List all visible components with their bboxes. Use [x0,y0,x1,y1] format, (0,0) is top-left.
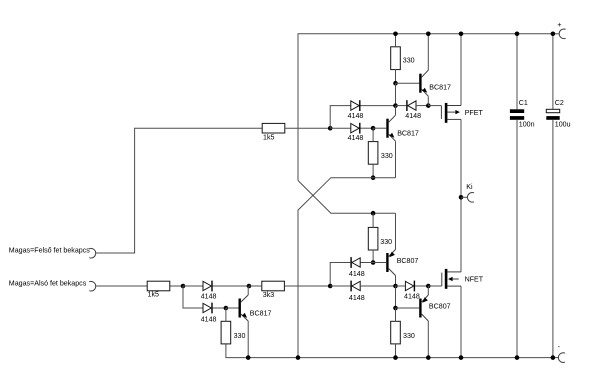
resistor R8 330 (bottom middle) [391,321,401,344]
wire D4 to left vertical [330,263,350,287]
node R2 top junction [393,32,398,37]
wire row 213 to Q3 emitter [395,213,397,249]
wire Also input to R 1k5 [96,285,148,287]
node O junction [393,306,398,311]
wire bottom rail stub to minus connector [554,357,559,359]
resistor R2 330 (top) [391,47,401,70]
wire row B to diode D3 [330,127,351,129]
transistor Q5 BC807 (bottom PNP) [419,299,421,318]
node G junction [371,211,376,216]
svg-text:4148: 4148 [201,316,217,324]
node D junction [371,126,376,131]
svg-text:330: 330 [380,238,392,246]
svg-text:3k3: 3k3 [263,291,274,299]
resistor R7 330 (bottom left) [221,321,231,344]
wire D1 to node B [361,105,396,107]
power - connector [558,353,565,363]
wire node C to PFET gate [428,105,441,107]
wire top-left vertical cross-couple to row 213 [298,181,396,214]
node A junction [328,126,333,131]
node PFET rail junction [459,32,464,37]
wire Felso input to upper row [96,128,263,253]
wire R3 to row 177 [372,164,374,178]
capacitor C1 [516,34,518,110]
svg-text:Magas=Alsó fet bekapcs: Magas=Alsó fet bekapcs [9,280,87,288]
wire node J to diode D5 [183,285,203,287]
wire node H to diode D4 [361,262,374,264]
wire Q1 emitter to node C [427,96,429,105]
wire rail to R2 [395,34,397,47]
wire R6 to node L [284,285,330,287]
diode D7 4148 (row D, pointing left) [350,281,351,292]
resistor R1 1k5 (upper) [262,123,285,133]
node K junction [247,284,252,289]
diode D1 4148 (row A left, pointing right) [351,101,359,110]
node I junction [393,284,398,289]
wire node E down to node B [395,83,397,103]
node C2 bottom junction [551,355,556,360]
wire node L to diode D7 [330,285,350,287]
input connector J1 (Felso) [89,248,96,258]
transistor Q2 BC817 (middle NPN) [386,119,388,138]
wire row 177 cross-couple to bottom rail [298,178,396,358]
node C1 bottom junction [515,355,520,360]
diode D8 4148 (row D right, pointing right) [405,281,413,290]
svg-text:1k5: 1k5 [148,291,159,299]
node E junction [393,81,398,86]
wire R4 to node H [372,250,374,263]
diode D2 4148 (row A right, pointing left) [406,100,407,111]
svg-text:100n: 100n [519,121,535,129]
diode D5 4148 (input row, pointing right) [203,281,211,290]
wire node I to diode D8 [396,285,406,287]
input connector J2 (Also) [89,281,96,291]
wire node D to Q2 base [373,127,386,129]
svg-text:330: 330 [403,332,415,340]
svg-text:4148: 4148 [405,112,421,120]
node Q4 emitter rail junction [246,355,251,360]
node N junction [426,284,431,289]
svg-text:4148: 4148 [404,293,420,301]
wire node A up to diode row A [330,106,351,129]
wire D7 to node I [360,285,395,287]
node NFET rail junction [459,355,464,360]
diode D6 4148 (lower input row, pointing right) [203,303,211,312]
wire Q4 emitter to bottom rail [247,321,249,358]
svg-text:NFET: NFET [465,276,484,284]
svg-text:BC817: BC817 [250,310,272,318]
wire R1 to node A [285,127,330,129]
wire D2 to node C [416,105,428,107]
wire bottom rail [226,344,554,358]
node M junction [224,306,229,311]
resistor R6 3k3 [262,281,285,291]
wire Also row: R 1k5 to node J [170,285,183,287]
svg-text:C2: C2 [555,99,564,107]
node L junction [328,284,333,289]
wire Q5 emitter from node N [427,286,429,295]
output Ki connector [467,192,474,202]
node R8 rail junction [393,355,398,360]
wire Q4 collector to node K [247,286,249,295]
wire PFET source to rail [460,34,462,106]
wire NFET source to bottom rail [460,286,462,358]
wire node D to R3 [372,128,374,141]
resistor R5 1k5 (lower) [147,281,170,291]
mosfet M1 PFET [440,106,442,119]
node Q5 collector rail junction [426,355,431,360]
svg-text:Ki: Ki [466,183,473,191]
wire R2 to node E [395,70,397,84]
wire Q3 collector to node I [395,276,397,287]
wire node O to R8 [395,308,397,321]
capacitor C2 (polarized) [552,34,554,110]
svg-text:100u: 100u [555,121,571,129]
diode D3 4148 (row B, pointing right) [351,124,359,133]
transistor Q3 BC807 (upper PNP) [386,253,388,272]
wire node I down to node O [395,286,397,308]
wire Q3 base from node H [373,262,386,264]
wire Ki stub [461,196,467,198]
wire Q2 collector to node B [395,106,397,116]
transistor Q4 BC817 (bottom-left NPN) [239,299,241,318]
svg-text:4148: 4148 [349,270,365,278]
resistor R3 330 (middle upper) [368,142,378,165]
svg-text:Magas=Felső fet bekapcs: Magas=Felső fet bekapcs [9,246,90,254]
wire node G to R4 [372,213,374,227]
transistor Q1 BC817 (upper NPN) [419,74,421,93]
wire node M to Q4 base [226,307,239,309]
svg-text:1k5: 1k5 [263,134,274,142]
wire D5 to node K [213,285,249,287]
wire node B to D2 [396,105,407,107]
wire PFET drain down to Ki and NFET [460,119,462,272]
wire D3 to node D [361,127,374,129]
svg-text:C1: C1 [519,99,528,107]
wire Q1 collector to rail [427,34,429,70]
node bottom rail left junction [296,355,301,360]
node C2 top junction [551,32,556,37]
wire node O to Q5 base [396,307,420,309]
node H junction [371,260,376,265]
svg-text:BC807: BC807 [397,257,419,265]
wire node E to Q1 base [396,82,420,84]
wire top rail stub to plus connector [553,33,560,35]
mosfet M2 NFET [441,273,443,286]
wire Q2 emitter down to row 177 [395,141,397,178]
svg-text:4148: 4148 [348,112,364,120]
wire Q5 collector to bottom rail [427,321,429,358]
wire R8 to bottom rail [395,344,397,358]
svg-text:BC817: BC817 [429,84,451,92]
wire node M to R7 [225,308,227,321]
svg-text:330: 330 [403,57,415,65]
wire node N to NFET gate [428,285,442,287]
wire node K to R6 [249,285,262,287]
node Q1 collector rail junction [426,32,431,37]
svg-text:330: 330 [381,152,393,160]
svg-text:+: + [557,21,561,29]
node J junction [181,284,186,289]
output Ki node junction [459,195,464,200]
wire top rail [298,34,553,181]
resistor R4 330 (middle lower) [368,227,378,250]
wire D6 to node M [213,307,226,309]
node B junction [393,103,398,108]
svg-text:PFET: PFET [465,109,484,117]
svg-text:4148: 4148 [201,292,217,300]
svg-text:BC817: BC817 [397,129,419,137]
wire D8 to node N [415,285,428,287]
node C1 top junction [515,32,520,37]
svg-text:BC807: BC807 [429,302,451,310]
power + connector [559,29,566,39]
node C junction [426,103,431,108]
svg-text:330: 330 [234,332,246,340]
svg-text:4148: 4148 [349,294,365,302]
node F junction [371,175,376,180]
svg-text:4148: 4148 [348,134,364,142]
wire node J down to lower input row [183,286,203,308]
diode D4 4148 (row C, pointing left) [350,257,351,268]
